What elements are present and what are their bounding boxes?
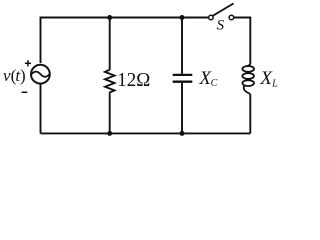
source plus sign — [25, 60, 31, 66]
wire right lower (inductor bottom to bottom-right corner) — [249, 94, 251, 133]
resistor R 12ohm zigzag — [105, 70, 115, 94]
source minus sign — [22, 91, 28, 93]
wire top-right (switch right pole to top-right corner) — [234, 18, 251, 62]
svg-text:): ) — [20, 66, 26, 85]
capacitor C top plate — [173, 74, 193, 76]
capacitor C bottom plate — [173, 81, 193, 83]
wire resistor branch lower — [109, 94, 111, 134]
svg-text:C: C — [211, 78, 218, 89]
wire capacitor branch lower — [181, 83, 183, 134]
source V1 circle — [31, 65, 50, 84]
switch S blade — [213, 3, 234, 15]
wire left lower (source bottom to bottom-left corner) — [40, 85, 42, 134]
wire top-left segment (top-left corner to resistor node) — [41, 18, 110, 64]
node dot bottom capacitor — [180, 131, 185, 136]
node dot top capacitor — [180, 15, 185, 20]
switch S left pole — [209, 15, 214, 20]
switch S right pole — [229, 15, 234, 20]
wire top (capacitor node to switch left pole) — [182, 17, 209, 19]
node dot bottom resistor — [107, 131, 112, 136]
wire resistor branch upper — [109, 18, 111, 70]
source V1 sine wave — [32, 72, 50, 77]
svg-text:12Ω: 12Ω — [117, 69, 150, 91]
svg-text:L: L — [271, 78, 278, 89]
inductor L coil — [242, 62, 254, 94]
wire capacitor branch upper — [181, 18, 183, 74]
node dot top resistor — [107, 15, 112, 20]
wire bottom (bottom-left corner to bottom-right corner) — [41, 132, 251, 134]
wire top middle (resistor node to capacitor node) — [110, 17, 182, 19]
svg-text:S: S — [217, 18, 225, 34]
